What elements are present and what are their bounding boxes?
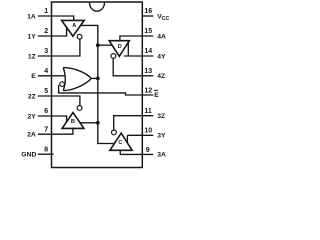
- svg-text:13: 13: [144, 68, 152, 75]
- svg-text:7: 7: [44, 126, 48, 133]
- svg-text:10: 10: [144, 127, 152, 134]
- svg-text:16: 16: [144, 8, 152, 15]
- svg-text:1Z: 1Z: [28, 53, 36, 60]
- svg-text:3Z: 3Z: [157, 113, 165, 120]
- svg-text:9: 9: [146, 147, 150, 154]
- svg-text:2Z: 2Z: [28, 93, 36, 100]
- svg-text:E: E: [154, 92, 159, 99]
- svg-text:4Y: 4Y: [157, 53, 166, 60]
- svg-text:12: 12: [144, 88, 152, 95]
- svg-text:VCC: VCC: [157, 13, 169, 22]
- svg-text:3: 3: [44, 48, 48, 55]
- svg-text:1: 1: [44, 8, 48, 15]
- svg-text:2Y: 2Y: [27, 113, 36, 120]
- svg-text:3Y: 3Y: [157, 133, 166, 140]
- svg-text:2A: 2A: [27, 132, 36, 139]
- svg-text:1Y: 1Y: [27, 33, 36, 40]
- svg-text:GND: GND: [21, 152, 36, 159]
- svg-text:4A: 4A: [157, 33, 166, 40]
- svg-text:6: 6: [44, 108, 48, 115]
- svg-text:A: A: [72, 23, 76, 29]
- svg-text:4: 4: [44, 68, 48, 75]
- svg-text:E: E: [31, 73, 36, 80]
- svg-text:3A: 3A: [157, 152, 166, 159]
- svg-text:2: 2: [44, 28, 48, 35]
- svg-text:D: D: [118, 44, 122, 50]
- svg-text:14: 14: [144, 48, 152, 55]
- svg-text:B: B: [71, 119, 75, 125]
- svg-text:8: 8: [44, 146, 48, 153]
- svg-text:C: C: [118, 140, 122, 146]
- svg-text:11: 11: [144, 108, 152, 115]
- svg-text:5: 5: [44, 88, 48, 95]
- svg-text:1A: 1A: [27, 13, 36, 20]
- svg-text:15: 15: [144, 28, 152, 35]
- svg-text:4Z: 4Z: [157, 73, 165, 80]
